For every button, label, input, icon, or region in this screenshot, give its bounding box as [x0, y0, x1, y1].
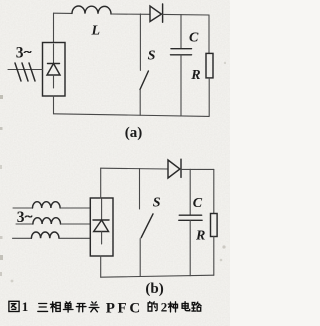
svg-text:S: S — [148, 48, 156, 63]
svg-text:1: 1 — [22, 299, 29, 314]
svg-text:R: R — [195, 228, 205, 243]
svg-text:C: C — [193, 196, 203, 211]
svg-text:S: S — [153, 196, 161, 211]
svg-text:R: R — [190, 68, 200, 83]
svg-text:L: L — [91, 24, 101, 39]
svg-text:(b): (b) — [145, 281, 163, 297]
svg-text:(a): (a) — [125, 125, 143, 141]
svg-text:3: 3 — [16, 45, 24, 62]
svg-text:2: 2 — [161, 300, 168, 315]
svg-text:C: C — [189, 31, 199, 46]
svg-text:PFC: PFC — [106, 300, 143, 316]
svg-text:3: 3 — [17, 209, 25, 226]
